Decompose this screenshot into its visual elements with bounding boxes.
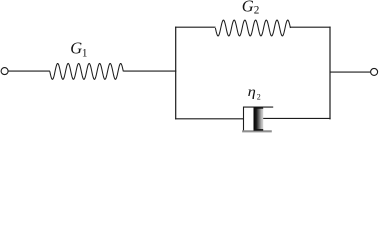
- svg-text:G: G: [70, 39, 82, 58]
- dashpot piston (shaded): [254, 107, 264, 130]
- dashpot cylinder: top edge and left wall: [244, 107, 274, 131]
- wire: left terminal to spring G1: [8, 70, 50, 72]
- wire: spring G1 to parallel-block left rail: [123, 70, 176, 72]
- svg-text:2: 2: [257, 93, 261, 102]
- label eta2: [248, 84, 261, 101]
- svg-text:2: 2: [254, 5, 260, 17]
- wire: dashpot piston rod to right rail: [263, 117, 330, 119]
- terminal: left input node: [1, 68, 8, 75]
- wire: right rail to right terminal: [330, 71, 371, 73]
- svg-text:1: 1: [82, 47, 88, 59]
- wire: parallel-block left rail: [175, 27, 177, 120]
- wire: top branch from left rail to spring G2: [175, 26, 215, 28]
- dashpot piston top cap: [254, 107, 264, 109]
- label G2: [242, 0, 260, 17]
- label G1: [70, 39, 87, 60]
- wire: top branch from spring G2 to right rail: [290, 26, 330, 28]
- wire: parallel-block right rail: [329, 27, 331, 120]
- svg-text:G: G: [242, 0, 254, 16]
- svg-text:η: η: [248, 84, 256, 100]
- spring G2: [215, 20, 290, 36]
- dashpot cylinder: bottom edge (gray): [242, 130, 272, 132]
- dashpot piston bottom cap: [254, 129, 264, 131]
- spring G1: [50, 63, 124, 79]
- terminal: right output node: [371, 68, 378, 75]
- wire: bottom branch from left rail to dashpot cylinder: [175, 118, 243, 120]
